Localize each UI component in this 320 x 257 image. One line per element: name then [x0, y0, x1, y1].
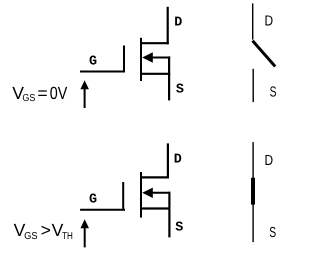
svg-text:VGS=0V: VGS=0V — [12, 83, 67, 104]
switch SW1 open blade — [253, 41, 276, 67]
transistor M1 drain bar — [140, 42, 169, 44]
wire SW2 conductor (closed switch line) — [252, 142, 254, 242]
svg-text:G: G — [89, 192, 97, 207]
svg-text:D: D — [174, 153, 182, 168]
transistor M2 gate electrode bar — [122, 182, 124, 211]
wire M1 drain lead — [167, 7, 169, 45]
wire M1 body-to-source — [168, 56, 170, 75]
svg-text:D: D — [174, 16, 182, 31]
switch SW2 closed blade (thick segment) — [251, 178, 255, 205]
wire SW1 drain terminal — [252, 3, 254, 39]
wire SW1 source terminal — [252, 69, 254, 102]
wire M2 body-to-source — [168, 192, 170, 210]
svg-text:D: D — [265, 153, 274, 169]
wire M1 gate lead — [80, 71, 125, 73]
wire M1 source lead — [168, 74, 170, 101]
wire M2 gate lead — [80, 209, 125, 211]
arrow A2 (gate drive input, up arrow) — [80, 219, 89, 247]
transistor M2 source bar — [140, 207, 171, 209]
svg-text:S: S — [269, 225, 276, 241]
transistor M1 channel bar — [140, 38, 142, 81]
transistor M1 gate electrode bar — [123, 46, 125, 73]
wire M2 drain lead — [167, 143, 169, 178]
wire M2 source lead — [168, 209, 170, 238]
arrow A1 (gate drive input, up arrow) — [80, 80, 89, 108]
transistor M2 body arrow — [142, 188, 170, 198]
svg-text:G: G — [89, 54, 97, 69]
transistor M1 body arrow — [142, 52, 170, 62]
svg-text:S: S — [175, 221, 183, 236]
transistor M2 channel bar — [140, 172, 142, 218]
svg-text:D: D — [265, 13, 274, 29]
transistor M1 source bar — [140, 73, 170, 75]
transistor M2 drain bar — [140, 176, 169, 178]
svg-text:S: S — [270, 84, 277, 100]
svg-text:S: S — [176, 83, 184, 98]
